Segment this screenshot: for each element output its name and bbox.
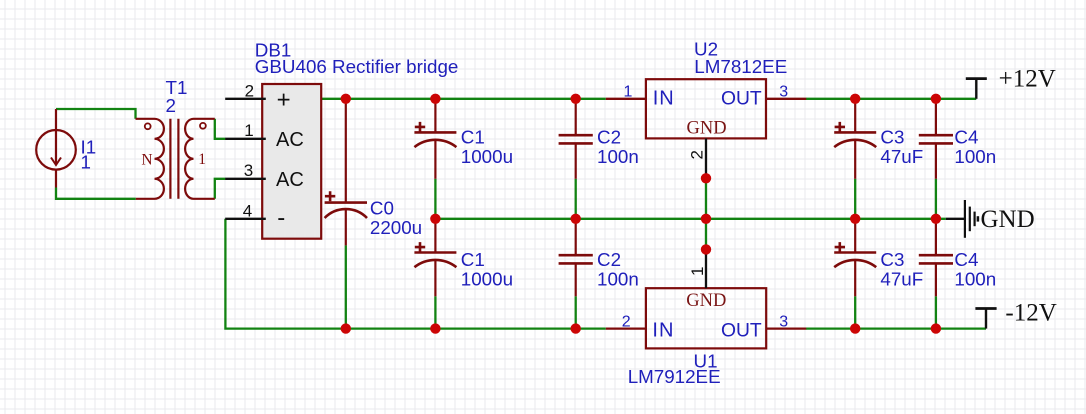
svg-text:LM7812EE: LM7812EE [694, 56, 787, 77]
svg-text:N: N [141, 152, 152, 169]
svg-text:IN: IN [652, 319, 674, 341]
svg-text:1: 1 [244, 121, 253, 140]
node top rail at C1 [430, 94, 440, 104]
node mid rail at C3 [850, 214, 860, 224]
svg-text:GND: GND [686, 291, 726, 311]
svg-text:100n: 100n [597, 269, 639, 290]
wire I1 bottom to T1 primary bottom [56, 188, 136, 199]
node U2 GND pin end [701, 173, 711, 183]
svg-text:47uF: 47uF [880, 269, 923, 290]
wire T1 secondary bottom to DB1 pin3 [215, 179, 226, 199]
svg-text:1: 1 [81, 152, 91, 173]
svg-text:1: 1 [688, 267, 707, 276]
svg-text:LM7912EE: LM7912EE [628, 366, 721, 387]
IC U1 LM7912EE [606, 250, 806, 348]
node mid rail at GND pins [701, 214, 711, 224]
node bottom rail at C1 [430, 323, 440, 333]
svg-text:1000u: 1000u [461, 146, 513, 167]
svg-text:+: + [277, 87, 291, 114]
svg-text:C4: C4 [954, 127, 978, 148]
rectifier bridge DB1 [225, 84, 321, 239]
wire C4 lower to bottom rail [935, 296, 937, 328]
capacitor C2 lower 100n [559, 219, 593, 296]
svg-text:-12V: -12V [1005, 300, 1056, 327]
wire C0 bottom lead to bottom rail [345, 245, 347, 328]
capacitor C1 upper 1000u [414, 99, 456, 179]
wire top rail DB1 to U2 IN [321, 98, 606, 100]
svg-text:C0: C0 [370, 198, 394, 219]
capacitor C4 lower 100n [919, 219, 953, 296]
svg-text:C2: C2 [597, 249, 621, 270]
capacitor C2 upper 100n [559, 99, 593, 179]
capacitor C1 lower 1000u [414, 219, 456, 296]
net flag +12V [966, 79, 987, 99]
wire C4 upper to mid rail [935, 179, 937, 219]
svg-text:OUT: OUT [721, 320, 762, 341]
wire C1 upper to mid rail [434, 179, 436, 219]
node U1 GND pin end [701, 244, 711, 254]
svg-text:2: 2 [245, 82, 254, 101]
wire U1 OUT to -12V [806, 327, 986, 329]
wire T1 secondary top to DB1 pin1 [215, 119, 226, 139]
svg-text:C4: C4 [954, 249, 978, 270]
node top rail at C0 [341, 94, 351, 104]
wire C3 lower to bottom rail [854, 296, 856, 328]
svg-text:GND: GND [687, 118, 727, 138]
svg-text:-: - [277, 205, 285, 232]
svg-text:2200u: 2200u [370, 217, 422, 238]
node top rail at C4 [931, 94, 941, 104]
current source I1 [36, 109, 76, 188]
svg-text:100n: 100n [597, 146, 639, 167]
svg-text:47uF: 47uF [880, 146, 923, 167]
svg-text:GBU406 Rectifier bridge: GBU406 Rectifier bridge [255, 56, 459, 77]
svg-text:3: 3 [779, 84, 788, 101]
svg-text:IN: IN [653, 88, 675, 110]
svg-text:1: 1 [198, 151, 206, 168]
capacitor C4 upper 100n [919, 99, 953, 179]
wire U2 GND to mid rail [705, 178, 707, 219]
net flag -12V [975, 309, 996, 329]
wire U2 OUT to +12V [806, 98, 976, 100]
wire C1 lower to bottom rail [434, 296, 436, 328]
svg-text:+12V: +12V [999, 65, 1056, 92]
svg-text:4: 4 [243, 201, 252, 220]
node bottom rail at C3 [850, 323, 860, 333]
wire middle GND rail [435, 218, 946, 220]
svg-text:AC: AC [276, 169, 304, 191]
svg-text:1: 1 [624, 84, 633, 101]
svg-text:1000u: 1000u [461, 269, 513, 290]
capacitor C0 2200u [325, 99, 367, 246]
node bottom rail at C4 [931, 323, 941, 333]
svg-text:3: 3 [779, 313, 788, 330]
svg-text:OUT: OUT [721, 89, 762, 110]
node top rail at C3 [850, 94, 860, 104]
IC U2 LM7812EE [606, 79, 806, 178]
svg-text:2: 2 [687, 150, 706, 159]
capacitor C3 upper 47uF [834, 99, 876, 179]
svg-text:AC: AC [276, 129, 304, 151]
transformer T1 [136, 119, 215, 199]
wire I1 top to T1 primary top [56, 109, 136, 119]
capacitor C3 lower 47uF [834, 219, 876, 296]
svg-text:C3: C3 [880, 127, 904, 148]
svg-text:2: 2 [622, 314, 631, 331]
node mid rail at C4 [931, 214, 941, 224]
svg-text:C3: C3 [880, 249, 904, 270]
node bottom rail at C0 [341, 323, 351, 333]
svg-text:100n: 100n [954, 269, 996, 290]
svg-text:3: 3 [244, 161, 253, 180]
svg-text:C2: C2 [597, 127, 621, 148]
svg-text:C1: C1 [461, 249, 485, 270]
net flag GND [946, 200, 978, 238]
svg-text:2: 2 [166, 95, 176, 116]
node mid rail at C2 [571, 214, 581, 224]
wire DB1 pin4 down and bottom rail left [225, 219, 605, 329]
svg-text:100n: 100n [954, 146, 996, 167]
wire C2 lower to bottom rail [575, 296, 577, 328]
node bottom rail at C2 [571, 323, 581, 333]
wire U1 GND to mid rail [705, 219, 707, 250]
wire C2 upper to mid rail [575, 179, 577, 219]
node mid rail at C1 [430, 214, 440, 224]
svg-text:GND: GND [981, 206, 1035, 233]
wire C3 upper to mid rail [854, 179, 856, 219]
node top rail at C2 [571, 94, 581, 104]
svg-text:C1: C1 [461, 127, 485, 148]
